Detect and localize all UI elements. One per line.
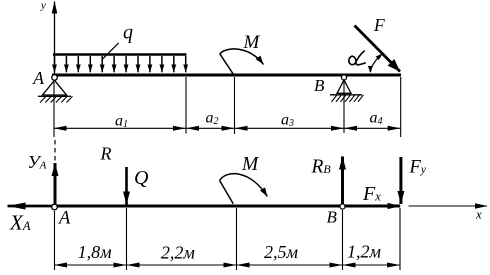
svg-text:M: M bbox=[241, 154, 260, 175]
svg-text:Q: Q bbox=[134, 167, 149, 189]
svg-text:XA: XA bbox=[9, 211, 31, 235]
svg-text:M: M bbox=[243, 32, 261, 53]
svg-text:B: B bbox=[327, 208, 338, 227]
svg-text:a1: a1 bbox=[115, 113, 128, 131]
svg-text:1,2м: 1,2м bbox=[347, 242, 382, 262]
svg-text:x: x bbox=[475, 207, 482, 222]
svg-text:y: y bbox=[40, 0, 46, 12]
svg-text:F: F bbox=[373, 15, 385, 35]
svg-text:1,8м: 1,8м bbox=[78, 242, 113, 262]
svg-text:2,5м: 2,5м bbox=[264, 242, 299, 262]
svg-text:a4: a4 bbox=[370, 110, 383, 128]
svg-text:A: A bbox=[32, 68, 44, 88]
svg-text:B: B bbox=[314, 76, 325, 95]
svg-text:2,2м: 2,2м bbox=[161, 243, 196, 263]
svg-text:Fx: Fx bbox=[362, 183, 381, 205]
svg-text:q: q bbox=[123, 22, 133, 44]
svg-text:УA: УA bbox=[28, 152, 47, 172]
svg-text:R: R bbox=[100, 144, 112, 164]
svg-text:Fy: Fy bbox=[409, 157, 427, 177]
svg-text:a3: a3 bbox=[281, 112, 294, 130]
svg-text:RB: RB bbox=[311, 157, 332, 178]
svg-text:a2: a2 bbox=[206, 110, 219, 128]
svg-text:A: A bbox=[57, 209, 71, 229]
